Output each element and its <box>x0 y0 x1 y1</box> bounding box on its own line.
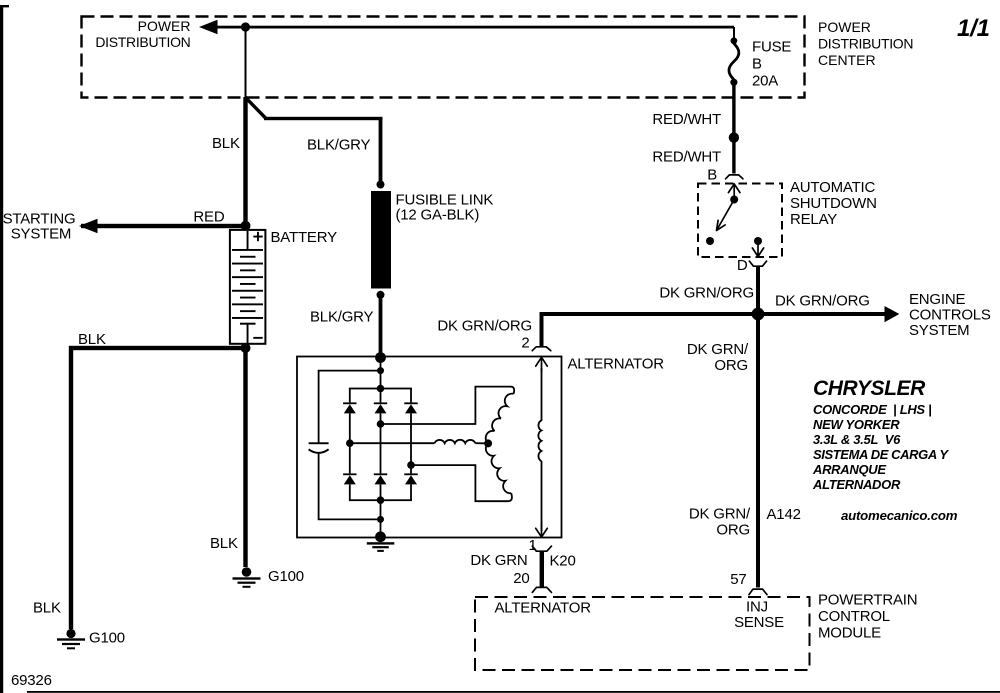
svg-text:ALTERNATOR: ALTERNATOR <box>568 355 665 372</box>
connector pin 20 cap <box>532 587 551 592</box>
junction node battery feed <box>241 22 250 31</box>
svg-text:SHUTDOWN: SHUTDOWN <box>790 195 877 212</box>
relay pin D arrow <box>752 241 763 257</box>
label BLK (battery feed) <box>212 135 240 152</box>
label INJ SENSE <box>734 599 784 632</box>
label DK GRN/ ORG (above PCM) <box>689 506 751 539</box>
svg-text:RED: RED <box>193 209 224 226</box>
label BLK/GRY (upper) <box>307 137 371 154</box>
arrow to starting system <box>79 219 98 233</box>
svg-text:3.3L & 3.5L V6: 3.3L & 3.5L V6 <box>813 432 901 447</box>
svg-text:A142: A142 <box>767 506 801 523</box>
label DK GRN/ORG (to alternator) <box>437 318 532 335</box>
wire capacitor bottom <box>319 453 381 519</box>
label G100 (right) <box>268 568 304 585</box>
svg-text:1/1: 1/1 <box>957 15 990 42</box>
relay contact node D <box>754 237 762 245</box>
svg-text:DK GRN: DK GRN <box>470 552 527 569</box>
arrow to power distribution <box>199 20 218 34</box>
svg-text:CONTROL: CONTROL <box>818 608 890 625</box>
svg-text:B: B <box>752 55 762 72</box>
svg-text:CONTROLS: CONTROLS <box>909 306 991 323</box>
svg-text:DK GRN/ORG: DK GRN/ORG <box>437 318 532 335</box>
label BLK (left ground) <box>33 600 61 617</box>
label 1/1 <box>957 15 990 42</box>
relay contact node left <box>706 237 714 245</box>
label pin 57 <box>730 571 746 588</box>
wire bridge right column <box>410 389 412 501</box>
relay pin B arrow <box>728 184 740 199</box>
label RED/WHT (upper) <box>652 111 721 128</box>
alternator ground node <box>375 531 386 542</box>
capacitor C1 <box>309 442 329 453</box>
label pin 2 <box>521 334 529 351</box>
svg-text:ALTERNATOR: ALTERNATOR <box>495 600 592 617</box>
svg-text:ALTERNADOR: ALTERNADOR <box>812 477 901 492</box>
label FUSIBLE LINK (12 GA-BLK) <box>396 192 494 224</box>
stator winding phase B <box>350 440 488 444</box>
svg-text:20A: 20A <box>752 72 778 89</box>
svg-text:ENGINE: ENGINE <box>909 291 966 308</box>
alternator case ground <box>367 542 395 552</box>
label circuit A142 <box>767 506 801 523</box>
wire BLK/GRY to alternator <box>379 297 383 357</box>
wire feed to power distribution <box>205 26 734 29</box>
rectifier top rail node <box>377 385 385 393</box>
fuse B bottom node <box>730 79 737 86</box>
svg-text:BLK: BLK <box>33 600 61 617</box>
connector pin B cap <box>726 175 743 179</box>
wire BLK/GRY horizontal <box>264 117 383 120</box>
wire bridge center column <box>380 389 382 537</box>
alternator pin 1 arrow <box>536 522 548 537</box>
svg-text:ARRANQUE: ARRANQUE <box>812 462 886 477</box>
label pin 1 <box>529 537 537 554</box>
svg-text:BLK: BLK <box>210 535 238 552</box>
rectifier diode D3 <box>404 402 417 413</box>
svg-text:B: B <box>707 166 717 183</box>
wire RED to starting system <box>81 224 246 228</box>
label FUSE B 20A <box>752 38 791 89</box>
svg-text:POWERTRAIN: POWERTRAIN <box>818 592 917 609</box>
label BLK (right ground) <box>210 535 238 552</box>
fusible link top node <box>377 181 385 189</box>
svg-text:SYSTEM: SYSTEM <box>909 322 969 339</box>
svg-text:DK GRN/: DK GRN/ <box>687 341 749 358</box>
label ENGINE CONTROLS SYSTEM <box>909 291 991 339</box>
svg-text:CHRYSLER: CHRYSLER <box>813 377 926 400</box>
capacitor bottom node <box>377 516 384 523</box>
svg-text:DISTRIBUTION: DISTRIBUTION <box>95 34 190 50</box>
svg-text:BATTERY: BATTERY <box>271 229 338 246</box>
stator phase node B <box>346 439 354 447</box>
svg-text:57: 57 <box>730 571 746 588</box>
label DK GRN/ORG (above junction) <box>659 285 754 302</box>
wire DK GRN K20 <box>540 551 544 587</box>
label 69326 <box>11 672 52 689</box>
page left border <box>0 5 9 693</box>
svg-text:SENSE: SENSE <box>734 614 784 631</box>
svg-text:RED/WHT: RED/WHT <box>652 111 721 128</box>
watermark automecanico.com <box>841 508 958 523</box>
alternator box <box>297 357 562 538</box>
stator winding phase C <box>411 443 512 501</box>
battery negative node <box>241 343 251 353</box>
fusible link F1 body <box>371 191 391 289</box>
svg-text:POWER: POWER <box>138 18 191 34</box>
rectifier diode D1 <box>343 402 356 413</box>
connector pin 1 cap <box>532 546 551 551</box>
connector pin 57 cap <box>749 589 767 595</box>
svg-text:automecanico.com: automecanico.com <box>841 508 958 523</box>
svg-text:K20: K20 <box>550 553 576 570</box>
battery B1 <box>230 230 266 344</box>
svg-text:SYSTEM: SYSTEM <box>11 225 71 242</box>
fusible link bottom node <box>377 291 385 299</box>
splice node RED/WHT <box>729 132 739 142</box>
wire field winding top <box>541 368 543 421</box>
label POWERTRAIN CONTROL MODULE <box>818 592 917 642</box>
label G100 (left) <box>89 630 125 647</box>
wire junction to kink <box>245 27 247 98</box>
label BLK/GRY (lower) <box>310 309 374 326</box>
title CHRYSLER <box>813 377 926 400</box>
wire RED/WHT upper <box>732 84 735 133</box>
svg-text:CONCORDE | LHS |: CONCORDE | LHS | <box>813 402 931 417</box>
svg-text:G100: G100 <box>89 630 125 647</box>
svg-text:AUTOMATIC: AUTOMATIC <box>790 179 876 196</box>
wire DK GRN/ORG junction down <box>756 314 760 588</box>
svg-text:INJ: INJ <box>746 599 768 616</box>
stator phase node A <box>377 420 385 428</box>
label AUTOMATIC SHUTDOWN RELAY <box>790 179 877 228</box>
label POWER DISTRIBUTION (destination) <box>95 18 190 50</box>
svg-text:2: 2 <box>521 334 529 351</box>
power distribution center box <box>82 17 805 98</box>
junction node DK GRN/ORG <box>752 308 765 321</box>
fuse B top node <box>731 37 738 44</box>
wire internal B+ column <box>380 357 382 389</box>
svg-text:ORG: ORG <box>714 357 748 374</box>
svg-text:RELAY: RELAY <box>790 211 837 228</box>
ground G100 left <box>57 629 85 649</box>
svg-text:(12 GA-BLK): (12 GA-BLK) <box>396 207 480 224</box>
wire bridge left column <box>349 389 351 501</box>
relay switch armature <box>717 200 735 231</box>
svg-text:DK GRN/ORG: DK GRN/ORG <box>775 293 870 310</box>
rectifier bottom rail <box>349 499 412 501</box>
svg-text:BLK/GRY: BLK/GRY <box>310 309 374 326</box>
label circuit K20 <box>550 553 576 570</box>
label ALTERNATOR (PCM pin) <box>495 600 592 617</box>
svg-text:BLK: BLK <box>212 135 240 152</box>
svg-text:SISTEMA DE CARGA Y: SISTEMA DE CARGA Y <box>813 447 949 462</box>
svg-text:BLK: BLK <box>78 331 106 348</box>
label DK GRN/ORG (to engine controls) <box>775 293 870 310</box>
wire BLK right branch down <box>243 348 247 567</box>
wire BLK/GRY down to fusible link <box>379 117 383 184</box>
svg-text:G100: G100 <box>268 568 304 585</box>
wire DK GRN/ORG horizontal <box>542 314 885 347</box>
stator star node <box>484 439 492 447</box>
svg-text:ORG: ORG <box>716 522 750 539</box>
svg-text:DK GRN/: DK GRN/ <box>689 506 751 523</box>
page bottom border <box>27 691 1000 693</box>
wire field winding bottom <box>541 461 543 531</box>
label BATTERY <box>271 229 338 246</box>
subtitle vehicle info <box>812 402 949 492</box>
automatic shutdown relay K1 box <box>698 184 782 258</box>
rectifier diode D2 <box>374 402 387 413</box>
svg-text:20: 20 <box>513 570 529 587</box>
rectifier top rail <box>349 388 412 390</box>
svg-text:CENTER: CENTER <box>818 52 876 68</box>
label DK GRN/ ORG (below junction) <box>687 341 749 374</box>
label BLK (ground branch upper) <box>78 331 106 348</box>
rectifier diode D4 <box>343 473 356 484</box>
wire BLK left branch down <box>69 346 73 629</box>
label POWER DISTRIBUTION CENTER <box>818 19 913 68</box>
label RED <box>193 209 224 226</box>
label DK GRN <box>470 552 527 569</box>
wire to capacitor top <box>319 371 381 443</box>
rectifier diode D6 <box>404 473 417 484</box>
svg-text:RED/WHT: RED/WHT <box>652 149 721 166</box>
label ALTERNATOR <box>568 355 665 372</box>
rectifier bottom rail node <box>377 496 385 504</box>
wire BLK to battery positive <box>243 97 247 227</box>
wire BLK battery negative horizontal <box>69 346 246 350</box>
relay switch common node <box>730 196 738 204</box>
wire DK GRN/ORG relay to junction <box>756 267 760 315</box>
svg-text:BLK/GRY: BLK/GRY <box>307 137 371 154</box>
svg-text:MODULE: MODULE <box>818 625 881 642</box>
capacitor tap node <box>377 367 384 374</box>
field winding L1 <box>538 420 541 461</box>
svg-text:NEW YORKER: NEW YORKER <box>813 417 900 432</box>
alternator B+ node <box>375 352 386 363</box>
svg-text:POWER: POWER <box>818 19 871 35</box>
stator phase node C <box>407 461 415 469</box>
battery positive node <box>241 221 251 231</box>
stator winding phase A <box>381 387 515 444</box>
wire PDC to fuse <box>733 27 735 42</box>
label pin 20 <box>513 570 529 587</box>
wire kink diagonal <box>246 98 267 119</box>
svg-text:DISTRIBUTION: DISTRIBUTION <box>818 36 913 52</box>
ground G100 right <box>233 567 261 588</box>
connector pin 2 cap <box>532 347 551 351</box>
label pin D <box>737 257 748 274</box>
alternator pin 2 arrow <box>536 357 548 372</box>
label STARTING SYSTEM <box>3 210 76 242</box>
wire RED/WHT lower <box>732 142 735 174</box>
connector pin D cap <box>749 261 766 266</box>
svg-text:DK GRN/ORG: DK GRN/ORG <box>659 285 754 302</box>
arrow to engine controls system <box>885 306 900 322</box>
svg-text:D: D <box>737 257 748 274</box>
label pin B <box>707 166 717 183</box>
svg-text:69326: 69326 <box>11 672 52 689</box>
rectifier diode D5 <box>374 473 387 484</box>
label RED/WHT (lower) <box>652 149 721 166</box>
fuse B 20A symbol <box>729 44 739 80</box>
svg-text:FUSE: FUSE <box>752 38 791 55</box>
powertrain control module box <box>475 597 810 670</box>
